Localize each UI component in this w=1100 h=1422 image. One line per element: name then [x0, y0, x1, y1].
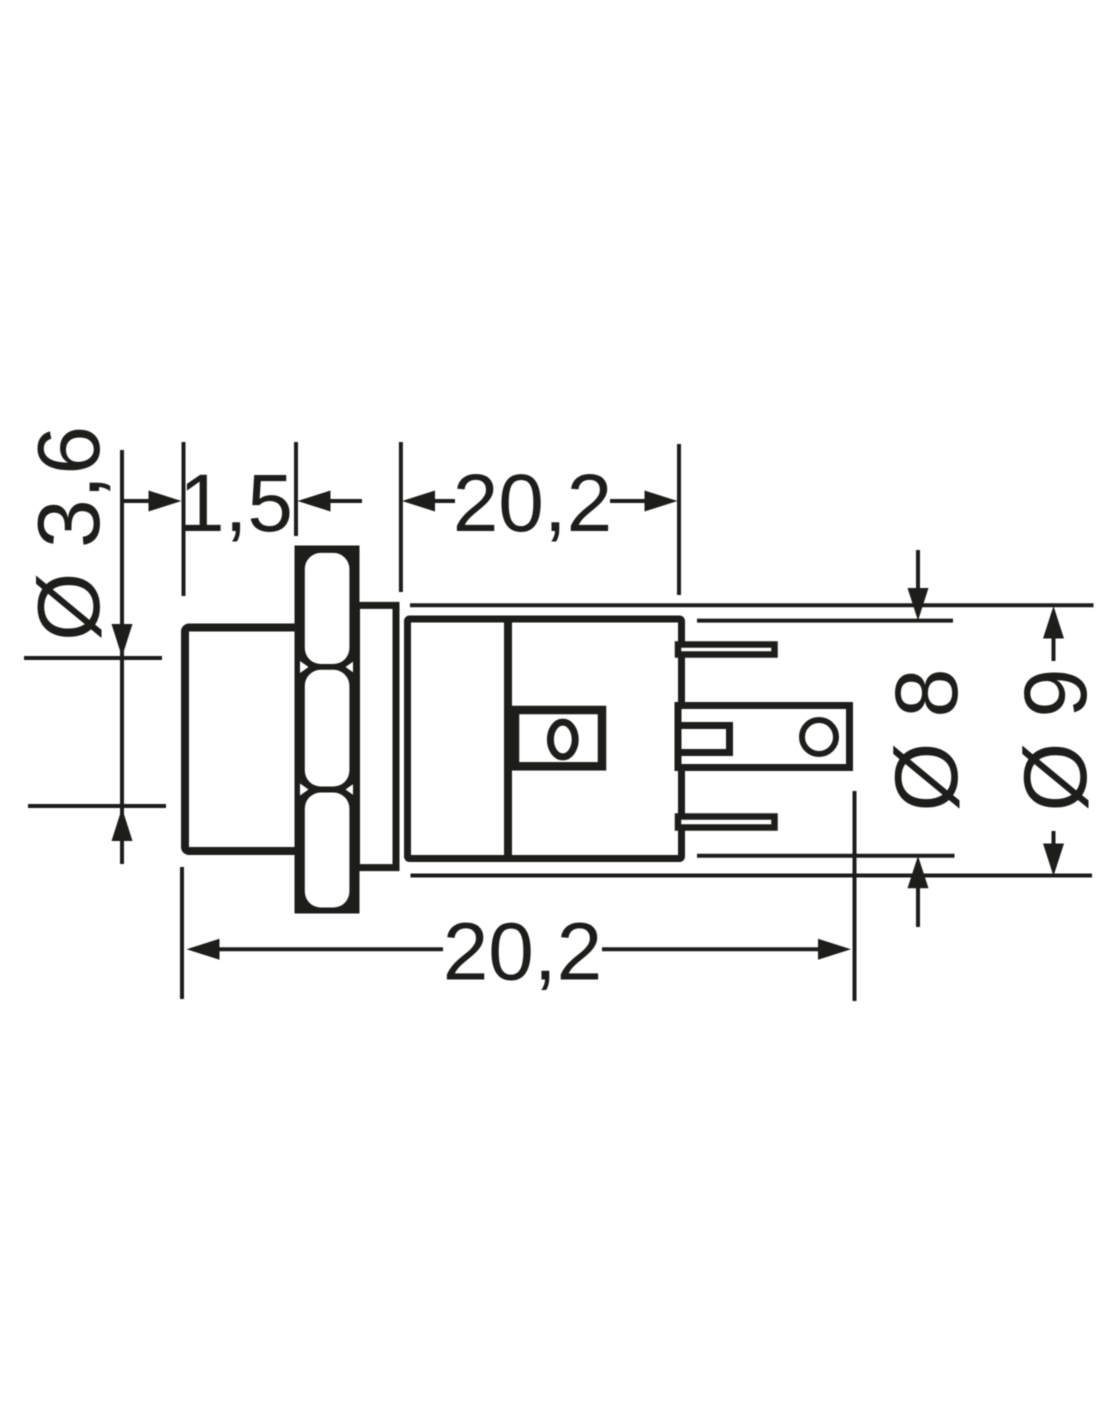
svg-text:1,5: 1,5: [179, 458, 293, 549]
hex nut facet-edge notch right 1: [346, 661, 355, 673]
terminal inner tab: [678, 726, 730, 753]
Ø9 bottom arrow: [1052, 831, 1056, 847]
hex nut facet 3: [305, 793, 350, 908]
Ø8 extension line top: [697, 619, 953, 623]
front bezel (lamp head): [185, 628, 299, 852]
Ø9 extension line bottom: [411, 874, 1093, 878]
extension line bezel face bottom: [180, 867, 184, 999]
Ø8 top arrow: [916, 550, 920, 590]
extension line body left top: [399, 442, 403, 592]
hex nut facet 1: [305, 553, 350, 664]
dim 1,5 left arrow: [122, 499, 150, 503]
marking 0: [550, 722, 575, 757]
hex nut facet 2: [305, 670, 350, 787]
svg-text:20,2: 20,2: [453, 458, 613, 549]
Ø3,6 arrowhead up: [112, 808, 133, 841]
Ø3,6 tick line lower: [28, 804, 166, 808]
extension line terminal right bottom: [853, 791, 857, 1001]
terminal hole: [802, 720, 836, 754]
hex nut facet-edge notch left 2: [300, 784, 309, 796]
dim 20,2 top right arrow: [610, 499, 645, 503]
Ø3,6 arrowhead down: [112, 624, 133, 657]
Ø9 top arrow: [1043, 606, 1064, 639]
Ø9 extension line top: [410, 603, 1094, 607]
svg-text:20,2: 20,2: [443, 907, 603, 998]
middle flat terminal: [678, 706, 850, 768]
extension line body right top: [677, 444, 681, 595]
hex nut facet-edge notch right 2: [346, 784, 355, 796]
Ø3,6 dimension line top: [120, 450, 124, 864]
lamp window rectangle: [515, 710, 602, 766]
svg-text:Ø 8: Ø 8: [876, 668, 976, 811]
main cylindrical body: [408, 619, 682, 859]
Ø3,6 tick line upper: [24, 656, 162, 660]
extension line nut left top: [294, 442, 298, 536]
dim 20,2 bottom left arrow: [187, 939, 220, 960]
body divider line: [504, 619, 512, 859]
Ø8 extension line bottom: [697, 854, 955, 858]
washer / thread bush: [357, 605, 397, 867]
extension line bezel face top: [182, 442, 186, 596]
dim 20,2 top left arrow: [402, 491, 435, 512]
dim 20,2 bottom right arrow: [602, 947, 818, 951]
top terminal pin: [678, 645, 775, 655]
svg-text:Ø 3,6: Ø 3,6: [19, 426, 118, 641]
bottom terminal pin: [678, 817, 775, 828]
Ø8 bottom arrow: [908, 856, 929, 889]
svg-text:Ø 9: Ø 9: [1005, 668, 1100, 811]
hex nut body (black): [295, 546, 360, 914]
dim 1,5 right arrow: [298, 491, 331, 512]
hex nut facet-edge notch left 1: [300, 661, 309, 673]
